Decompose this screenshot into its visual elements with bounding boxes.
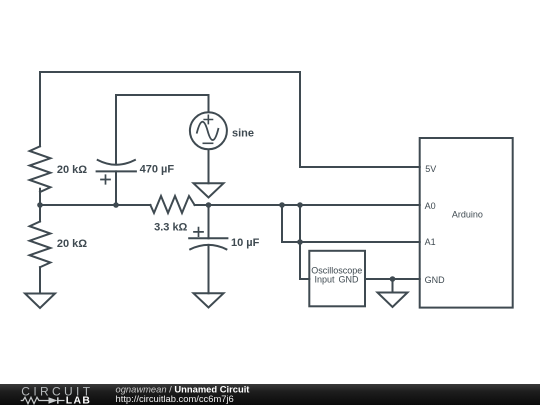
node dot C2 y205 [206,202,212,208]
voltage source V1 plus [204,115,212,123]
wire A1 net to Arduino A1 [300,241,420,243]
wire node to C2 top [208,205,210,238]
wire oscilloscope GND to Arduino GND [365,278,420,280]
ground G4 oscilloscope [378,293,408,308]
Arduino box [420,138,513,308]
svg-text:A1: A1 [425,237,436,247]
svg-text:http://circuitlab.com/cc6m7j6: http://circuitlab.com/cc6m7j6 [116,393,234,404]
node dot C1 y205 [113,202,119,208]
node dot osc gnd [390,276,396,282]
wire A0 node down to A1 net [282,205,300,242]
wire cap C1 top to sine top [116,95,209,164]
capacitor C1 470uF straight plate [97,170,136,172]
wire R2 bottom to ground [39,267,41,293]
Oscilloscope box [309,251,365,306]
resistor R3 3.3k [150,196,194,213]
wire R1 bottom to R2 top [39,189,41,222]
svg-text:10 µF: 10 µF [231,237,260,249]
capacitor C1 plus sign [101,175,110,184]
node dot A1 junction [297,239,303,245]
svg-text:Input: Input [315,275,336,285]
wire sine bottom to ground [208,149,210,183]
ground G2 below sine [194,183,224,197]
capacitor C2 10uF straight plate [189,237,227,239]
svg-text:20 kΩ: 20 kΩ [57,238,87,250]
svg-text:LAB: LAB [66,395,91,405]
svg-text:Arduino: Arduino [452,209,483,219]
ground G1 left [25,294,55,309]
wire A0 node2 down to oscilloscope input [300,205,309,279]
svg-text:GND: GND [339,275,360,285]
svg-text:20 kΩ: 20 kΩ [57,164,87,176]
wire oscilloscope gnd stub [392,279,394,293]
wire C1 bottom to node [115,171,117,205]
logo diode [49,397,58,403]
resistor R1 20k [30,146,51,192]
svg-text:470 µF: 470 µF [140,164,175,176]
svg-text:5V: 5V [425,164,436,174]
svg-text:3.3 kΩ: 3.3 kΩ [154,222,187,234]
node dot A0 branch1 [279,202,285,208]
logo resistor zigzag [21,397,49,403]
capacitor C2 10uF curved plate [190,245,226,249]
capacitor C2 plus sign [194,228,203,237]
voltage source V1 minus [203,142,212,144]
capacitor C1 470uF curved plate [98,160,135,165]
ground G3 below C2 [194,293,224,307]
svg-text:sine: sine [232,127,254,139]
node dot left y205 [37,202,43,208]
voltage source V1 circle [190,112,227,149]
resistor R2 20k [30,222,51,268]
svg-text:GND: GND [425,275,446,285]
wire C2 bottom to ground [208,245,210,293]
wire top net: R1 top to 5V [40,72,420,167]
wire mid horizontal net y=205 [40,204,420,206]
node dot A0 branch2 [297,202,303,208]
svg-text:A0: A0 [425,201,436,211]
voltage source V1 sine wave [197,122,218,140]
